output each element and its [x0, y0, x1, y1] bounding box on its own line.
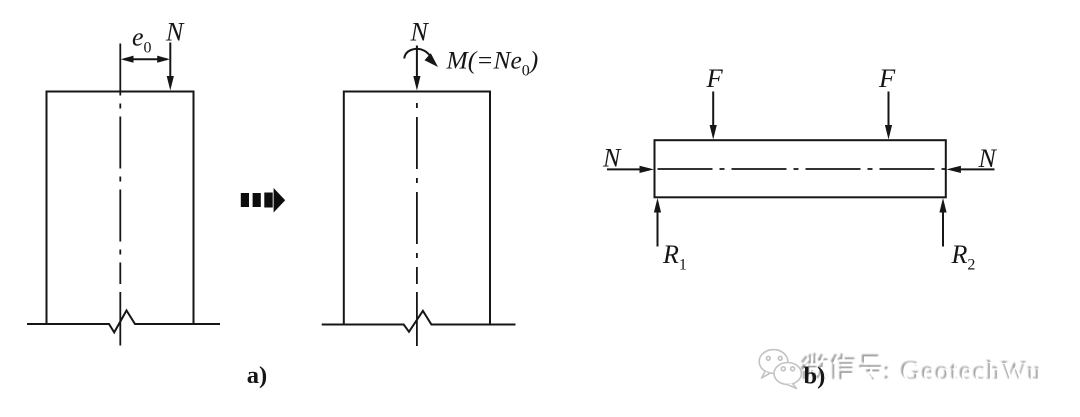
centerline (left column): [119, 44, 121, 285]
centerline (middle column): [416, 103, 418, 284]
reaction R2 arrow: [942, 212, 944, 247]
watermark wechat icon: [759, 350, 801, 389]
svg-text:N: N: [978, 144, 998, 173]
force F left arrow: [712, 92, 714, 128]
ground line with break (left column): [27, 311, 220, 333]
axial N left arrow: [607, 168, 641, 170]
force F right arrow: [888, 92, 890, 128]
beam centerline: [658, 168, 947, 170]
reaction R1 arrow: [657, 212, 659, 247]
svg-text:F: F: [878, 63, 896, 93]
svg-text:a): a): [247, 362, 267, 389]
moment arc M: [404, 49, 430, 59]
svg-text:N: N: [410, 17, 430, 46]
svg-text:N: N: [165, 17, 185, 46]
axial N right arrow: [960, 168, 995, 170]
svg-text:e0: e0: [132, 23, 152, 57]
column outline middle: [344, 92, 490, 325]
svg-text:F: F: [706, 63, 724, 93]
svg-text:R1: R1: [662, 240, 687, 274]
column outline left: [47, 92, 194, 325]
svg-text:M(=Ne0): M(=Ne0): [446, 46, 539, 80]
ground line with break (middle column): [322, 311, 516, 332]
svg-text:b): b): [804, 363, 826, 390]
load N arrow (left column): [169, 43, 171, 79]
svg-text:N: N: [602, 143, 622, 172]
axial load N arrow (middle column): [416, 46, 418, 79]
dimension arrow e0: [124, 58, 167, 60]
beam outline: [655, 140, 946, 197]
svg-text:R2: R2: [951, 240, 976, 274]
